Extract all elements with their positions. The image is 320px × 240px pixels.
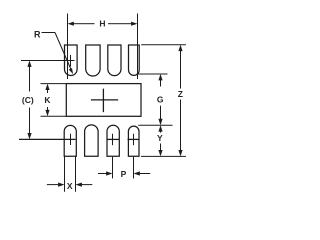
dimension Z line [178,45,182,157]
svg-text:X: X [67,181,73,191]
pad 7 (bottom row) [107,125,119,156]
extension line (C) bottom / bottom pad1 center line [19,138,76,140]
center cross pad 1 top (vertical tick) [70,55,72,67]
dimension G line [158,74,162,125]
center cross bottom pad 3 (horizontal) [107,138,120,140]
dimension H line [68,22,138,26]
extension line (C) top / pad1 center line [21,60,75,62]
pad 6 (bottom row) [85,125,99,156]
extension line K bottom [41,115,67,117]
pad 4 (top row) [129,45,140,75]
extension line K top [41,83,67,85]
center cross bottom pad 3 vertical / P extension left [112,134,114,145]
svg-text:K: K [44,95,51,105]
svg-text:(C): (C) [22,95,34,105]
pad 5 (bottom row, rounded top) [64,125,76,156]
pad 8 (bottom row) [128,126,139,156]
svg-text:P: P [121,169,127,179]
leader R [42,33,74,75]
svg-text:R: R [34,29,41,39]
package body outline rectangle [66,84,141,117]
center cross bottom pad 4 vertical / P extension right [133,134,135,145]
pad 2 (top row) [86,45,100,76]
center cross bottom pad 4 (horizontal) [128,138,140,140]
extension line G bottom / Y top [138,124,172,126]
dimension X line [47,183,92,187]
dimension (C) line [27,61,31,140]
extension line H left (through pad 1) [67,14,69,80]
pad 3 (top row) [108,45,121,76]
body center cross [91,89,118,113]
extension line Z bottom / Y bottom [141,155,186,157]
svg-text:G: G [157,95,164,105]
svg-text:Y: Y [157,133,163,143]
extension line X left [64,156,66,192]
svg-text:H: H [99,19,105,29]
extension line H right (through pad 4) [137,14,139,80]
extension line G top [137,73,167,75]
pad 1 (top row, rounded bottom) [65,45,78,76]
dimension Y line [158,125,162,156]
center cross bottom pad 1 (vertical tick) [70,134,72,145]
extension line Z top [141,44,186,46]
dimension P line [98,171,150,175]
dimension K line [45,84,49,117]
svg-text:Z: Z [178,89,183,99]
extension line X right [75,156,77,192]
